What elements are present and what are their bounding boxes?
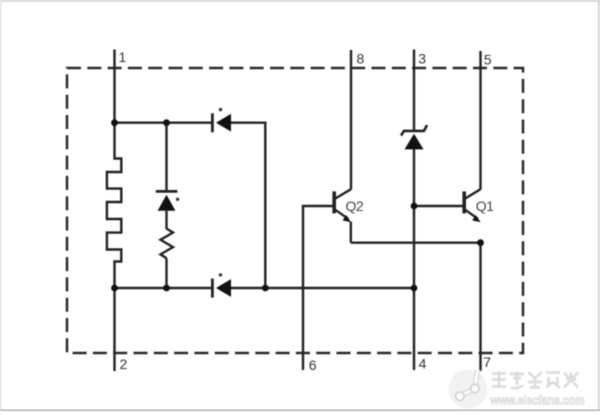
page frame top edge [0,0,600,2]
pin 1 lead [113,50,115,124]
wire: Q2 emitter drop [350,222,352,243]
node: emitter rail to pin7 junction [477,239,484,246]
watermark CJK text (stylized) [492,371,578,388]
pin 7 lead [479,243,481,371]
node: pin1/top-rail junction [111,119,118,126]
pin 2 lead [113,288,115,371]
svg-text:2: 2 [120,356,128,372]
pin 4 lead (lower part of pin3 net) [413,149,415,370]
wire: bottom rail left segment [115,287,212,289]
svg-text:Q1: Q1 [476,198,494,214]
bottom separator rule [0,409,600,411]
diode D2 (bottom, cathode left) [212,273,231,297]
svg-text:1: 1 [119,49,127,65]
wire: bottom rail right segment [231,287,414,289]
page frame right edge [598,0,600,410]
IC package outline (dashed box) [67,68,523,353]
wire: base wire of Q1 from pin3 net [414,205,463,207]
wire: middle branch lower [165,258,167,288]
svg-text:4: 4 [419,356,427,372]
wire: middle branch upper [165,123,167,191]
pin 3 lead [413,50,415,131]
node: pin2/bottom-rail junction [111,285,118,292]
node: middle branch bottom junction [163,285,170,292]
svg-text:8: 8 [357,51,365,67]
node: bottom rail to pin4 net junction [411,285,418,292]
wire: top rail left segment [115,121,212,123]
svg-text:Q2: Q2 [346,198,364,214]
transistor Q2 [334,189,351,222]
svg-text:6: 6 [309,357,317,373]
diode D1 (top, cathode left) [212,108,231,132]
pin 8 lead [350,50,352,190]
wire: emitter rail Q2 to Q1 [351,241,481,243]
page frame left edge [0,0,2,410]
node: middle branch top junction [163,119,170,126]
resistor R2 (zigzag) [161,229,174,259]
pin 5 lead [479,51,481,190]
zener diode DZ (cathode up, on pin 3 net) [401,125,427,149]
resistor (meander, left) [107,123,121,288]
pin 6 lead and base wire of Q2 [303,206,333,370]
transistor Q1 [464,189,480,222]
watermark logo circle [449,370,488,409]
wire: middle branch between diode and resistor [165,211,167,229]
diode D3 (middle, cathode up) [156,191,180,210]
node: right drop to bottom rail junction [262,285,269,292]
svg-text:www.elecfans.com: www.elecfans.com [490,393,585,408]
wire: top rail right segment with drop to bottom rail [231,123,265,288]
node: Q1 base junction on pin3 net [411,203,418,210]
svg-text:5: 5 [484,52,492,68]
svg-text:3: 3 [418,51,426,67]
svg-text:7: 7 [483,354,491,370]
